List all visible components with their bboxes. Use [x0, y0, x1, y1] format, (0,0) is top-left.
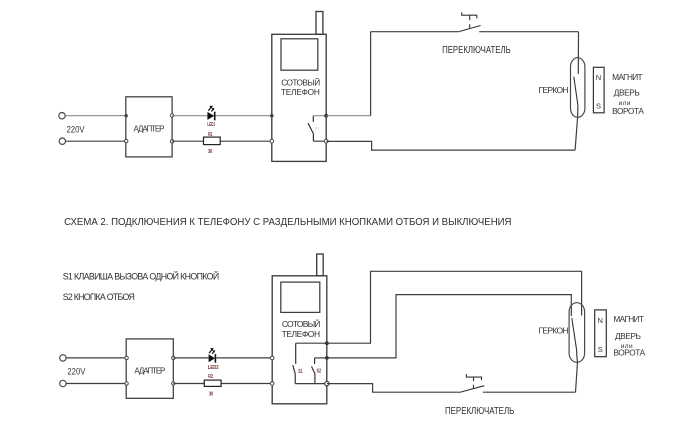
svg-text:АДАПТЕР: АДАПТЕР	[134, 125, 165, 134]
wire adapter to LED1 (grey)	[172, 115, 207, 117]
svg-text:ГЕРКОН: ГЕРКОН	[539, 326, 569, 336]
reed blade (top)	[574, 77, 578, 106]
svg-text:220V: 220V	[67, 367, 85, 377]
svg-text:220V: 220V	[67, 124, 85, 134]
magnet bar (bottom)	[595, 310, 607, 357]
junction phone right top	[324, 114, 328, 118]
terminal circle 220V top	[59, 113, 65, 119]
junction phone2 right mid	[325, 356, 329, 360]
svg-text:МАГНИТ: МАГНИТ	[613, 314, 644, 324]
switch S1 bottom stub	[294, 374, 296, 384]
svg-text:S2: S2	[317, 369, 322, 375]
svg-text:ГЕРКОН: ГЕРКОН	[539, 85, 569, 95]
svg-text:СХЕМА 2. ПОДКЛЮЧЕНИЯ К ТЕЛЕФОН: СХЕМА 2. ПОДКЛЮЧЕНИЯ К ТЕЛЕФОНУ С РАЗДЕЛ…	[64, 217, 511, 228]
bottom wire with step	[327, 384, 461, 393]
terminal circle 220V top (bottom schematic)	[60, 355, 66, 361]
pin phone2 left bottom	[270, 382, 274, 386]
svg-text:N: N	[598, 316, 603, 325]
adapter U1 box	[126, 97, 172, 157]
pin phone left bottom	[270, 139, 274, 143]
pushbutton SB2 blade	[461, 386, 484, 392]
resistor R2 body	[204, 380, 221, 386]
LED D1 arrows	[208, 106, 212, 111]
switch S2 bottom stub	[314, 374, 316, 384]
phone screen	[281, 39, 318, 70]
wire S1 S2 bottoms to phone edge	[295, 383, 327, 385]
LED D1 cathode bar	[214, 112, 216, 121]
junction phone2 right bottom	[325, 381, 329, 385]
wire adapter2 to LED2	[173, 357, 208, 359]
resistor R1 body	[204, 137, 221, 145]
switch S1 top stub	[295, 343, 297, 364]
LED D2 triangle	[209, 354, 215, 362]
svg-text:R2: R2	[208, 374, 213, 380]
LED D2 cathode bar	[214, 354, 216, 363]
loop top wire right segment	[479, 31, 578, 33]
junction phone right bottom	[324, 139, 328, 143]
svg-text:ПЕРЕКЛЮЧАТЕЛЬ: ПЕРЕКЛЮЧАТЕЛЬ	[445, 406, 515, 417]
svg-text:МАГНИТ: МАГНИТ	[612, 72, 643, 82]
LED D2 arrows	[209, 349, 213, 354]
svg-text:ПЕРЕКЛЮЧАТЕЛЬ: ПЕРЕКЛЮЧАТЕЛЬ	[442, 45, 511, 56]
terminal circle 220V bottom	[59, 138, 65, 144]
phone screen (bottom)	[281, 282, 320, 312]
bottom wire right segment	[483, 391, 576, 393]
svg-text:S1: S1	[315, 127, 319, 131]
svg-text:ДВЕРЬ: ДВЕРЬ	[615, 331, 642, 341]
svg-text:LED2: LED2	[208, 365, 219, 371]
svg-text:S: S	[598, 345, 603, 354]
pin phone left top	[270, 114, 274, 118]
pushbutton SB2 stem (dashed)	[473, 377, 475, 389]
wire adapter2 to R2	[173, 383, 204, 385]
wire R2 to phone	[221, 383, 272, 385]
reed switch capsule (top)	[571, 58, 585, 117]
loop left vertical wire	[370, 32, 372, 116]
switch S (top phone) top stub	[312, 116, 314, 122]
switch S (top phone) blade	[308, 123, 314, 134]
loop right vertical down to reed	[577, 32, 579, 74]
switch S2 top stub	[314, 358, 316, 364]
pin adapter2 left bottom	[125, 382, 128, 385]
terminal circle 220V bottom (bottom schematic)	[60, 380, 66, 386]
loop bottom wire	[326, 141, 575, 150]
pin phone2 left top	[270, 356, 274, 360]
switch S1 wire top	[296, 342, 327, 344]
switch S2 wire top	[315, 357, 327, 359]
pushbutton SB2 actuator bar	[466, 374, 481, 380]
wire LED1 to phone (grey)	[215, 115, 271, 117]
svg-text:S: S	[596, 102, 601, 111]
pin adapter left bottom	[125, 140, 128, 143]
outer loop wire from S1	[327, 271, 582, 343]
inner loop wire from S2	[327, 295, 571, 358]
reed bottom lead (top)	[575, 105, 578, 150]
svg-text:R1: R1	[208, 132, 212, 138]
svg-text:ВОРОТА: ВОРОТА	[613, 347, 645, 357]
svg-text:S2 КНОПКА ОТБОЯ: S2 КНОПКА ОТБОЯ	[63, 292, 135, 302]
svg-text:ДВЕРЬ: ДВЕРЬ	[614, 88, 641, 98]
pin adapter2 left top	[125, 356, 128, 359]
wire 220V top to adapter (bottom)	[66, 357, 126, 359]
svg-text:ВОРОТА: ВОРОТА	[612, 106, 644, 116]
pin adapter left top	[125, 114, 128, 117]
phone body (bottom schematic)	[272, 276, 327, 404]
phone antenna	[316, 12, 323, 35]
pin adapter2 right top	[172, 356, 175, 359]
pin adapter2 right bottom	[172, 382, 175, 385]
reed blade (bottom)	[572, 318, 577, 356]
phone body (top schematic)	[272, 34, 326, 161]
svg-text:СОТОВЫЙ: СОТОВЫЙ	[282, 318, 321, 329]
wire 220V top to adapter (grey)	[65, 115, 125, 117]
wire R1 to phone	[220, 140, 272, 142]
pin adapter right top	[170, 114, 173, 117]
svg-text:LED1: LED1	[207, 122, 215, 128]
pushbutton SB1 blade	[459, 26, 480, 32]
phone antenna (bottom)	[317, 254, 324, 276]
adapter U2 box	[126, 339, 173, 398]
switch S (top phone) bottom stub	[312, 134, 314, 141]
svg-text:ТЕЛЕФОН: ТЕЛЕФОН	[281, 87, 320, 97]
pushbutton SB1 actuator bar	[462, 12, 477, 18]
LED D1 triangle	[207, 112, 214, 120]
reed switch capsule (bottom)	[569, 303, 585, 363]
switch S1 blade	[293, 365, 295, 373]
wire 220V bottom to adapter	[66, 140, 126, 142]
pushbutton SB1 stem (dashed)	[469, 15, 471, 28]
wire LED2 to phone	[216, 357, 272, 359]
svg-text:ТЕЛЕФОН: ТЕЛЕФОН	[282, 329, 321, 339]
pin adapter right bottom	[170, 140, 173, 143]
svg-text:СОТОВЫЙ: СОТОВЫЙ	[281, 76, 320, 87]
wire phone to loop left vertical (grey)	[326, 115, 370, 117]
wire switch bottom to phone edge	[313, 140, 326, 142]
magnet bar (top)	[593, 67, 604, 113]
svg-text:30: 30	[208, 149, 212, 155]
svg-text:S1: S1	[298, 369, 302, 375]
switch S2 blade	[312, 366, 315, 373]
wire 220V bottom to adapter (bottom)	[66, 383, 126, 385]
junction phone2 right top	[325, 341, 329, 345]
wire switch top to phone edge (grey)	[313, 115, 326, 117]
wire adapter to R1	[172, 140, 203, 142]
svg-text:АДАПТЕР: АДАПТЕР	[134, 366, 165, 375]
svg-text:S1 КЛАВИША ВЫЗОВА ОДНОЙ КНОПКО: S1 КЛАВИША ВЫЗОВА ОДНОЙ КНОПКОЙ	[63, 271, 220, 282]
svg-text:30: 30	[209, 391, 213, 397]
reed bottom lead (bottom)	[576, 356, 578, 393]
svg-text:N: N	[596, 73, 601, 82]
loop top wire left segment	[371, 31, 460, 33]
